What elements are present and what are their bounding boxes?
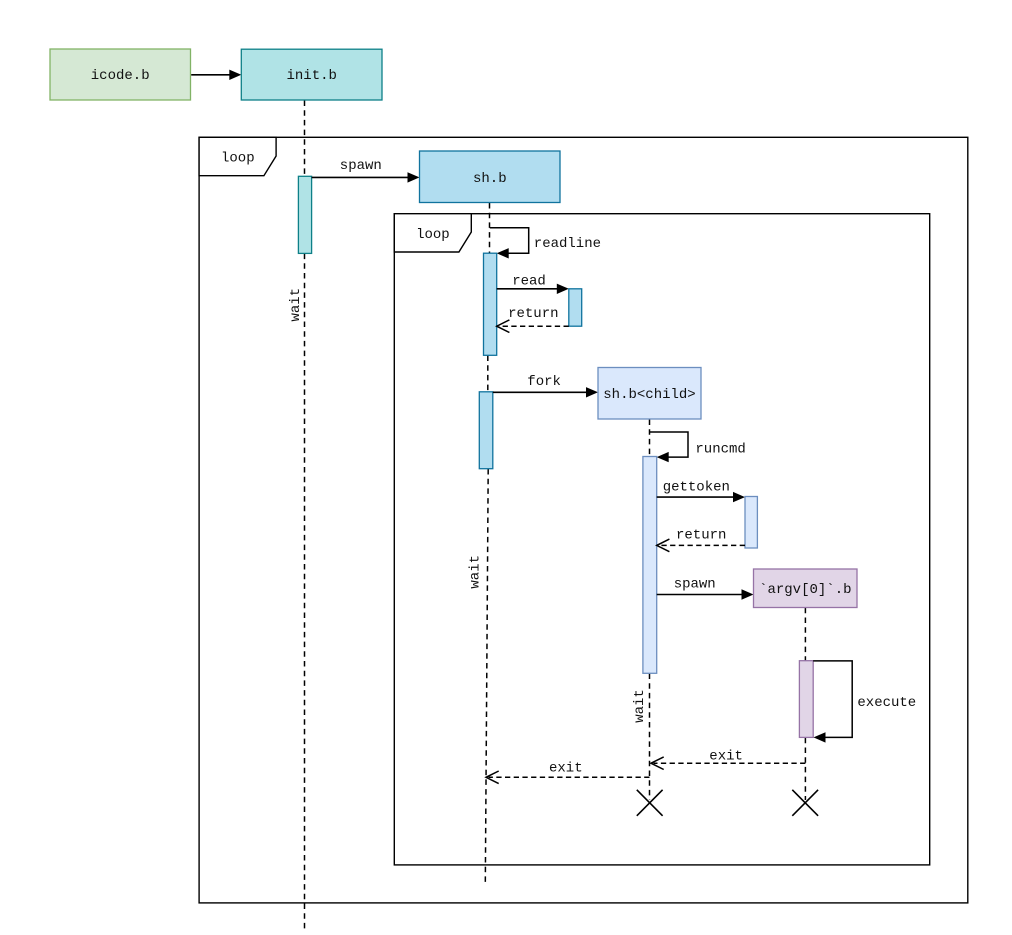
lifeline init.b xyxy=(304,101,306,930)
message spawn to sh.b xyxy=(312,158,420,183)
lifeline argv xyxy=(804,608,806,800)
svg-text:wait: wait xyxy=(288,288,304,322)
self message execute xyxy=(813,661,916,743)
svg-text:loop: loop xyxy=(221,151,255,167)
svg-text:`argv[0]`.b: `argv[0]`.b xyxy=(759,582,851,598)
self message runcmd xyxy=(650,432,746,462)
svg-text:read: read xyxy=(512,273,546,289)
svg-text:runcmd: runcmd xyxy=(695,441,745,457)
actor box sh.b child xyxy=(598,368,701,420)
activation bar sh.b first xyxy=(484,253,497,355)
svg-text:gettoken: gettoken xyxy=(663,479,730,495)
message read xyxy=(497,273,569,294)
actor box sh.b xyxy=(420,151,561,203)
message return dashed second xyxy=(657,527,745,551)
activation bar read target xyxy=(569,289,582,326)
svg-text:exit: exit xyxy=(709,748,743,764)
message return dashed xyxy=(497,306,569,333)
activation bar init.b xyxy=(298,176,311,253)
svg-text:spawn: spawn xyxy=(674,577,716,593)
message exit argv to child dashed xyxy=(651,748,805,769)
svg-text:return: return xyxy=(676,527,726,543)
wait label init xyxy=(288,288,304,322)
svg-text:icode.b: icode.b xyxy=(91,68,150,84)
svg-text:spawn: spawn xyxy=(340,158,382,174)
svg-text:return: return xyxy=(508,306,558,322)
svg-text:wait: wait xyxy=(632,689,648,723)
inner loop frame xyxy=(394,214,929,865)
activation bar gettoken target xyxy=(745,497,757,549)
actor box icode.b xyxy=(50,49,191,100)
message icode.b to init.b xyxy=(191,70,241,80)
activation bar argv xyxy=(799,661,813,738)
actor box argv xyxy=(754,569,858,608)
svg-text:init.b: init.b xyxy=(286,68,336,84)
message fork xyxy=(493,374,598,398)
message gettoken xyxy=(657,479,745,502)
wait label child xyxy=(632,689,648,723)
self message readline xyxy=(490,228,601,259)
message spawn to argv xyxy=(657,577,754,600)
destruction X child xyxy=(637,790,663,816)
destruction X argv xyxy=(792,790,818,816)
activation bar sh.b child xyxy=(643,457,657,674)
svg-text:fork: fork xyxy=(527,374,561,390)
svg-text:readline: readline xyxy=(534,236,601,252)
lifeline sh.b xyxy=(485,203,489,885)
svg-text:exit: exit xyxy=(549,761,583,777)
lifeline sh.b child xyxy=(649,420,651,801)
svg-text:wait: wait xyxy=(467,555,483,589)
svg-text:sh.b<child>: sh.b<child> xyxy=(603,387,695,403)
actor box init.b xyxy=(241,49,382,100)
outer loop label pentagon xyxy=(199,137,276,175)
svg-text:execute: execute xyxy=(857,695,916,711)
svg-text:sh.b: sh.b xyxy=(473,171,507,187)
message exit child to sh.b dashed xyxy=(486,761,650,784)
activation bar sh.b second xyxy=(479,392,493,469)
inner loop label pentagon xyxy=(394,214,471,252)
outer loop frame xyxy=(199,137,968,903)
wait label sh.b xyxy=(467,555,483,589)
svg-text:loop: loop xyxy=(416,227,450,243)
